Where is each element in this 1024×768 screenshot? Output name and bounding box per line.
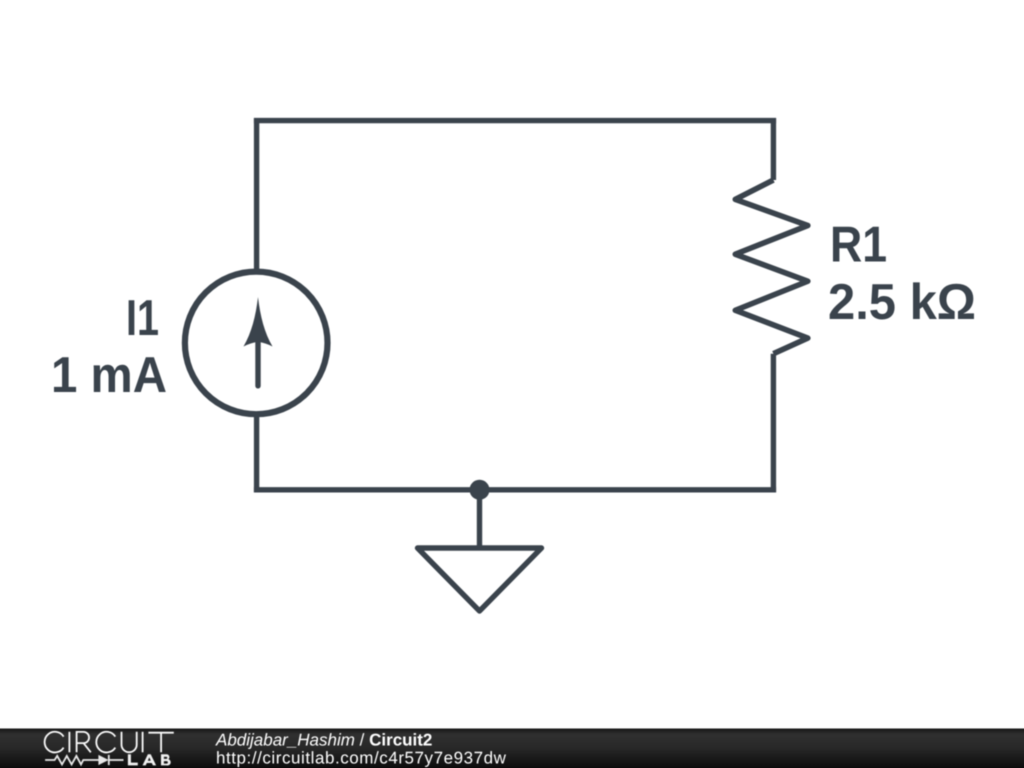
- wire from I1 top to top-left corner: [254, 118, 259, 273]
- wire from junction to ground: [477, 490, 482, 548]
- svg-text:http://circuitlab.com/c4r57y7e: http://circuitlab.com/c4r57y7e937dw: [216, 749, 507, 768]
- footer bar: [0, 729, 1024, 768]
- resistor R1: [735, 180, 808, 354]
- svg-text:2.5 kΩ: 2.5 kΩ: [828, 273, 976, 330]
- logo resistor-diode glyph: [45, 755, 123, 765]
- node junction dot on bottom wire: [470, 480, 490, 500]
- wire from bottom-left corner to I1 bottom: [254, 413, 259, 492]
- wire from top-right corner to resistor R1 top: [771, 118, 776, 180]
- current source I1 arrow shaft: [255, 341, 260, 386]
- logo diode triangle: [98, 755, 108, 765]
- current source I1 (circle body): [185, 272, 328, 415]
- footer url line: [216, 749, 507, 768]
- wire top horizontal: [254, 118, 776, 123]
- wire bottom horizontal: [254, 487, 776, 492]
- svg-text:1 mA: 1 mA: [51, 346, 167, 403]
- logo LAB letters: [128, 754, 171, 765]
- ground: [418, 548, 542, 611]
- wire from resistor R1 bottom to bottom-right corner: [771, 354, 776, 493]
- svg-text:Abdijabar_Hashim / Circuit2: Abdijabar_Hashim / Circuit2: [215, 731, 432, 750]
- svg-text:R1: R1: [830, 216, 887, 273]
- current source I1 arrow head: [244, 297, 273, 347]
- logo CIRCUIT wordmark: [45, 732, 174, 753]
- footer title line: [215, 731, 432, 750]
- svg-text:I1: I1: [126, 289, 159, 346]
